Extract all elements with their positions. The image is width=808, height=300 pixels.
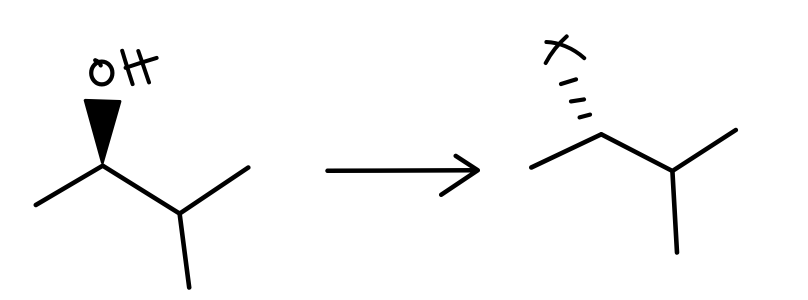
- reactant wedge bond C2-OH: [85, 100, 120, 162]
- product hashed bond dash 2: [571, 99, 584, 101]
- reaction arrowhead: [441, 156, 478, 195]
- product bond C3-C4 (upper right methyl): [672, 130, 735, 171]
- product bond C2-C3: [601, 134, 672, 171]
- product bond C2-C1 (left methyl): [531, 134, 601, 167]
- reactant label OH: letter H crossbar: [126, 58, 157, 68]
- product label X: stroke 2 (left to right): [546, 42, 584, 58]
- reactant bond C2-C3: [103, 166, 180, 214]
- reaction arrow shaft: [328, 168, 477, 173]
- product bond C3-C5 (lower methyl): [672, 171, 677, 253]
- product hashed bond dash 3: [580, 115, 590, 118]
- product hashed bond dash 1: [561, 79, 576, 84]
- reactant bond C3-C4 (upper right methyl): [180, 168, 249, 214]
- reactant label OH: letter H left leg: [122, 51, 132, 84]
- reactant bond C2-C1 (left methyl): [36, 166, 103, 205]
- reactant bond C3-C5 (lower methyl): [180, 214, 190, 288]
- reactant label OH: letter O: [91, 60, 112, 84]
- product label X: stroke 1 (top-right to bottom-left): [546, 36, 567, 63]
- reactant label OH: letter H right leg: [138, 51, 149, 82]
